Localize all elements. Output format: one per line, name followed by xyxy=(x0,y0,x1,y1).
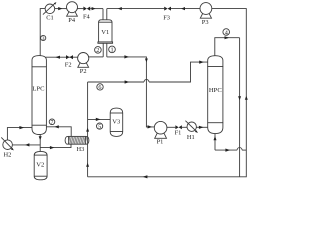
svg-text:H1: H1 xyxy=(187,134,195,141)
wire H2 top return into LPC with arrow xyxy=(7,126,32,140)
wire F1 to H1 xyxy=(182,126,187,128)
svg-text:7: 7 xyxy=(51,120,54,126)
svg-text:4: 4 xyxy=(225,29,228,36)
svg-text:F1: F1 xyxy=(175,129,182,136)
node 6 (stream circle) xyxy=(97,84,103,91)
heater H1 xyxy=(185,121,198,133)
svg-text:V3: V3 xyxy=(112,118,121,125)
heat exchanger H3 xyxy=(65,136,89,144)
vessel V2 xyxy=(34,151,47,179)
svg-text:H2: H2 xyxy=(4,152,12,159)
column LPC xyxy=(32,56,46,135)
node 5 (stream circle) xyxy=(97,123,103,130)
svg-text:1: 1 xyxy=(111,47,114,54)
svg-text:5: 5 xyxy=(98,123,101,130)
wire riser to H2 with arrow toward H2 xyxy=(12,143,40,146)
heater H2 xyxy=(1,137,14,150)
valve F1 xyxy=(175,125,182,129)
valve F3 xyxy=(164,7,171,11)
wire HPC bottoms with up arrow, hop over stream4 leg, to P3 leg xyxy=(214,134,247,152)
node 4 (stream circle) xyxy=(223,29,230,37)
wire riser to V3 and H3 (vertical x87.6) with up arrows xyxy=(86,82,89,177)
svg-text:F4: F4 xyxy=(83,13,91,20)
pump P2 xyxy=(78,53,89,68)
svg-text:C1: C1 xyxy=(46,14,53,21)
svg-text:P2: P2 xyxy=(80,68,87,75)
valve F4 xyxy=(83,7,90,11)
pump P4 xyxy=(67,2,78,17)
svg-text:P3: P3 xyxy=(202,19,209,26)
node 2 (stream circle) xyxy=(95,47,102,55)
wire P4 to F4 xyxy=(78,8,84,10)
wire LPC bottom outlet down to V2 with down arrow xyxy=(39,135,42,152)
svg-text:V1: V1 xyxy=(101,29,109,36)
wire F3 to P3 with arrow toward F3 xyxy=(171,7,200,10)
wire P1 to F1 xyxy=(167,126,176,128)
valve F2 xyxy=(66,55,73,59)
wire C1 to P4 with arrow xyxy=(55,7,67,10)
pump P1 xyxy=(154,121,167,138)
wire V1 to F3 with arrow toward V1 xyxy=(107,7,164,10)
wire branch to V3 with arrow xyxy=(88,118,111,121)
svg-text:F3: F3 xyxy=(163,15,170,22)
node 7 (stream circle) xyxy=(49,119,55,126)
wire P3 discharge to right-side down leg xyxy=(212,9,247,151)
wire LPC reflux line from P2 with arrow into LPC xyxy=(46,56,78,59)
svg-text:HPC: HPC xyxy=(209,87,222,94)
wire LPC top to C1 xyxy=(40,9,45,56)
svg-text:F2: F2 xyxy=(65,62,72,69)
arrow up on P3 suction line xyxy=(245,96,248,100)
wire right down leg to bottom return line xyxy=(240,150,247,177)
wire HPC overhead to stream 4 branch xyxy=(215,36,240,55)
wire H3 shell bottom to V2 riser with arrow toward H3 xyxy=(40,144,71,149)
wire P2 suction from V1 bottom xyxy=(89,56,103,58)
wire F4 to V1 neck with arrow xyxy=(90,7,103,10)
column HPC xyxy=(208,56,223,134)
svg-text:6: 6 xyxy=(98,84,101,91)
wire H3 shell top to LPC return with arrow into LPC xyxy=(46,125,71,136)
pump P3 xyxy=(200,3,212,19)
svg-text:P1: P1 xyxy=(157,139,164,146)
node 3 (stream circle) xyxy=(41,35,46,42)
wire bottom return line to H3 riser with left arrow xyxy=(88,175,240,178)
wire H1 to HPC with arrow xyxy=(196,126,207,129)
svg-text:2: 2 xyxy=(96,47,99,54)
node 1 (stream circle) xyxy=(109,46,116,54)
node 6 corner and line to HPC with hop over V1-P1 leg xyxy=(88,61,208,84)
compressor C1 xyxy=(43,2,57,15)
vessel V3 xyxy=(110,108,123,136)
svg-text:H3: H3 xyxy=(77,146,85,153)
wire V1 bottom to P1 via down leg with arrow xyxy=(107,55,155,128)
svg-text:V2: V2 xyxy=(36,161,44,168)
svg-text:P4: P4 xyxy=(68,17,76,24)
svg-text:3: 3 xyxy=(42,36,45,42)
wire stream 4 down leg with down arrow xyxy=(238,38,241,177)
svg-text:LPC: LPC xyxy=(32,86,45,93)
vessel V1 xyxy=(98,9,113,57)
